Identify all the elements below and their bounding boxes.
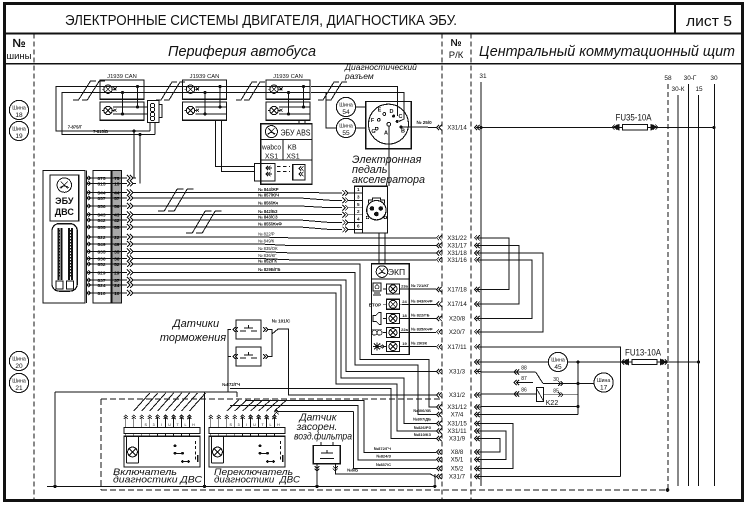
svg-text:акселератора: акселератора	[352, 174, 425, 186]
svg-text:ДВС: ДВС	[55, 207, 75, 217]
svg-text:возд.фильтра: возд.фильтра	[294, 431, 352, 443]
svg-text:1: 1	[357, 187, 360, 192]
svg-text:X5/1: X5/1	[451, 457, 464, 464]
svg-text:№810/КЗ: №810/КЗ	[414, 432, 432, 437]
svg-text:ВТОР: ВТОР	[369, 302, 381, 307]
svg-text:5: 5	[357, 202, 360, 207]
svg-text:58: 58	[664, 75, 672, 82]
svg-text:C: C	[399, 114, 403, 120]
svg-text:43: 43	[114, 212, 120, 218]
svg-text:X8/8: X8/8	[451, 449, 464, 456]
svg-text:X5/2: X5/2	[451, 466, 464, 473]
svg-text:X17/14: X17/14	[447, 301, 467, 308]
svg-text:35: 35	[114, 249, 120, 255]
svg-text:шины: шины	[6, 51, 31, 62]
svg-text:844: 844	[97, 190, 105, 196]
svg-text:X31/14: X31/14	[447, 125, 467, 132]
svg-text:H: H	[277, 423, 280, 427]
svg-text:X31/3: X31/3	[449, 368, 466, 375]
svg-text:4: 4	[357, 217, 360, 222]
svg-text:X7/4: X7/4	[451, 412, 464, 419]
svg-text:№: №	[450, 38, 461, 49]
svg-text:G: G	[371, 129, 375, 135]
svg-text:18: 18	[15, 112, 23, 119]
svg-text:E: E	[378, 108, 382, 114]
svg-text:29: 29	[114, 270, 120, 276]
svg-text:842: 842	[97, 218, 105, 224]
svg-text:L: L	[270, 423, 272, 427]
svg-text:7-875/Г: 7-875/Г	[68, 125, 83, 130]
svg-text:№ 822/Р: № 822/Р	[258, 232, 275, 237]
svg-text:X31/15: X31/15	[447, 421, 467, 428]
svg-text:22: 22	[114, 235, 120, 241]
svg-text:X31/22: X31/22	[447, 235, 467, 242]
svg-text:J1939 CAN: J1939 CAN	[107, 74, 137, 80]
svg-text:X31/12: X31/12	[447, 404, 467, 411]
svg-text:824: 824	[97, 283, 105, 289]
svg-text:Центральный коммутационный щит: Центральный коммутационный щит	[479, 44, 735, 60]
svg-text:XS1: XS1	[286, 153, 299, 160]
svg-text:810: 810	[97, 291, 105, 297]
svg-text:B: B	[401, 129, 405, 135]
svg-text:U: U	[168, 423, 171, 427]
svg-text:44: 44	[114, 190, 120, 196]
svg-text:57: 57	[114, 196, 120, 202]
svg-text:Шина: Шина	[551, 358, 565, 364]
svg-text:ЭЛЕКТРОННЫЕ СИСТЕМЫ ДВИГАТЕЛЯ,: ЭЛЕКТРОННЫЕ СИСТЕМЫ ДВИГАТЕЛЯ, ДИАГНОСТИ…	[65, 12, 457, 29]
svg-text:J1939 CAN: J1939 CAN	[190, 74, 220, 80]
svg-text:829: 829	[97, 270, 105, 276]
svg-text:Шина: Шина	[339, 103, 353, 109]
svg-text:36: 36	[114, 256, 120, 262]
svg-text:857: 857	[97, 196, 105, 202]
svg-text:Шина: Шина	[12, 357, 26, 363]
svg-text:Шина: Шина	[12, 127, 26, 133]
svg-text:№ 25/0: № 25/0	[416, 120, 432, 125]
svg-text:Шина: Шина	[12, 106, 26, 112]
svg-text:№ 843/КчФ: № 843/КчФ	[411, 298, 433, 303]
svg-text:торможения: торможения	[160, 332, 226, 344]
svg-text:17: 17	[600, 385, 608, 392]
svg-text:№872/ГЧ: №872/ГЧ	[222, 382, 240, 387]
svg-text:15: 15	[114, 181, 120, 187]
svg-text:843: 843	[97, 212, 105, 218]
svg-text:I: I	[246, 423, 247, 427]
svg-text:№872/ГЧ: №872/ГЧ	[374, 446, 392, 451]
svg-text:№ 842/БЗ: № 842/БЗ	[258, 209, 278, 214]
svg-text:wabco: wabco	[261, 145, 281, 152]
svg-text:852: 852	[97, 262, 105, 268]
svg-text:815: 815	[97, 181, 105, 187]
svg-text:№ 29/ЗК: № 29/ЗК	[411, 341, 428, 346]
svg-text:XS1: XS1	[265, 153, 278, 160]
svg-text:лист 5: лист 5	[686, 13, 732, 30]
svg-text:30-К: 30-К	[672, 86, 685, 93]
svg-text:86: 86	[521, 388, 527, 394]
svg-text:18: 18	[402, 313, 407, 318]
svg-text:85: 85	[553, 389, 559, 395]
svg-text:56: 56	[114, 204, 120, 210]
svg-text:№ 857/ЮЧ: № 857/ЮЧ	[258, 193, 279, 198]
svg-text:№ 844/ЖР: № 844/ЖР	[258, 187, 279, 192]
svg-text:20: 20	[15, 363, 23, 370]
svg-text:15: 15	[695, 86, 703, 93]
svg-text:75: 75	[114, 176, 120, 182]
svg-text:№826/РЗ: №826/РЗ	[414, 425, 432, 430]
svg-text:30: 30	[710, 75, 718, 82]
svg-text:87: 87	[521, 376, 527, 382]
svg-text:№ 835/ОК: № 835/ОК	[258, 246, 278, 251]
svg-text:№ 822/ГБ: № 822/ГБ	[411, 312, 430, 317]
svg-text:849: 849	[97, 242, 105, 248]
svg-text:№ 856/Жч: № 856/Жч	[258, 201, 279, 206]
svg-text:A: A	[384, 131, 388, 137]
svg-text:Шина: Шина	[12, 379, 26, 385]
svg-text:№: №	[12, 36, 25, 50]
svg-text:№ 835/КчФ: № 835/КчФ	[411, 327, 433, 332]
svg-text:55: 55	[114, 225, 120, 231]
svg-text:№807/ДБ: №807/ДБ	[413, 417, 431, 422]
svg-text:X17/18: X17/18	[447, 287, 467, 294]
svg-text:диагностики ДВС: диагностики ДВС	[113, 474, 202, 485]
svg-text:D: D	[390, 109, 394, 115]
svg-text:ЭКП: ЭКП	[388, 267, 405, 277]
svg-text:№ 836/КГ: № 836/КГ	[258, 253, 277, 258]
svg-text:19: 19	[15, 133, 23, 140]
svg-text:L: L	[185, 423, 187, 427]
svg-text:№837/С: №837/С	[376, 462, 391, 467]
svg-text:835: 835	[97, 249, 105, 255]
svg-text:ЭБУ ABS: ЭБУ ABS	[281, 128, 311, 137]
svg-text:23а: 23а	[401, 283, 408, 288]
svg-text:3: 3	[153, 423, 155, 427]
svg-text:разъем: разъем	[344, 71, 374, 81]
svg-text:U: U	[253, 423, 256, 427]
svg-text:ЭБУ: ЭБУ	[55, 196, 74, 206]
svg-text:№806/ХБ: №806/ХБ	[413, 408, 431, 413]
svg-text:X17/11: X17/11	[447, 344, 467, 351]
svg-text:49: 49	[114, 242, 120, 248]
svg-text:диагностики ДВС: диагностики ДВС	[214, 474, 300, 485]
svg-text:X31/17: X31/17	[447, 243, 467, 250]
svg-text:3: 3	[238, 423, 240, 427]
svg-text:52: 52	[114, 262, 120, 268]
svg-text:J1939 CAN: J1939 CAN	[273, 74, 303, 80]
svg-text:№6/Б: №6/Б	[347, 468, 358, 473]
svg-text:X31/11: X31/11	[447, 428, 467, 435]
svg-text:X31/2: X31/2	[449, 392, 466, 399]
svg-text:FU35-10A: FU35-10A	[616, 113, 653, 124]
svg-text:822: 822	[97, 235, 105, 241]
svg-text:7-815/Б: 7-815/Б	[93, 129, 108, 134]
svg-text:10: 10	[114, 291, 120, 297]
svg-text:X20/8: X20/8	[449, 315, 466, 322]
svg-text:30: 30	[553, 377, 559, 383]
svg-text:Шина: Шина	[339, 124, 353, 130]
svg-text:45: 45	[554, 364, 562, 371]
svg-text:X20/7: X20/7	[449, 329, 466, 336]
svg-text:30-Г: 30-Г	[684, 75, 697, 82]
svg-text:88: 88	[521, 366, 527, 372]
svg-text:856: 856	[97, 204, 105, 210]
svg-text:Шина: Шина	[597, 378, 611, 384]
svg-text:№824/З: №824/З	[376, 454, 391, 459]
svg-text:I: I	[161, 423, 162, 427]
svg-text:Датчики: Датчики	[171, 318, 219, 330]
svg-text:№ 852/ГК: № 852/ГК	[258, 259, 277, 264]
svg-text:875: 875	[97, 176, 105, 182]
svg-text:55: 55	[342, 130, 350, 137]
svg-text:№ 101/С: № 101/С	[272, 319, 291, 324]
svg-text:6: 6	[357, 224, 360, 229]
svg-text:X31/9: X31/9	[449, 436, 466, 443]
svg-text:21: 21	[15, 385, 23, 392]
svg-text:54: 54	[342, 109, 350, 116]
svg-text:19: 19	[402, 341, 407, 346]
svg-text:K22: K22	[546, 400, 559, 407]
svg-text:H: H	[192, 423, 195, 427]
svg-text:855: 855	[97, 225, 105, 231]
svg-text:№ 855/ЖчФ: № 855/ЖчФ	[258, 222, 282, 227]
svg-text:№ 721/КГ: № 721/КГ	[411, 283, 430, 288]
svg-text:KB: KB	[287, 145, 297, 152]
svg-text:№ 849/К: № 849/К	[258, 239, 275, 244]
svg-text:X31/7: X31/7	[449, 474, 466, 481]
svg-text:№ 843/СЗ: № 843/СЗ	[258, 215, 278, 220]
svg-text:Периферия автобуса: Периферия автобуса	[168, 44, 316, 60]
svg-text:X31/16: X31/16	[447, 257, 467, 264]
svg-text:№ 829Б/ГБ: № 829Б/ГБ	[258, 267, 280, 272]
svg-text:22а: 22а	[401, 327, 408, 332]
svg-text:42: 42	[114, 218, 120, 224]
svg-text:3: 3	[357, 195, 360, 200]
svg-text:24: 24	[402, 299, 407, 304]
svg-text:Р/К: Р/К	[449, 50, 464, 61]
svg-text:24: 24	[114, 283, 120, 289]
svg-text:2: 2	[357, 209, 360, 214]
svg-text:FU13-10A: FU13-10A	[625, 348, 662, 359]
svg-text:31: 31	[479, 73, 487, 80]
svg-text:836: 836	[97, 256, 105, 262]
